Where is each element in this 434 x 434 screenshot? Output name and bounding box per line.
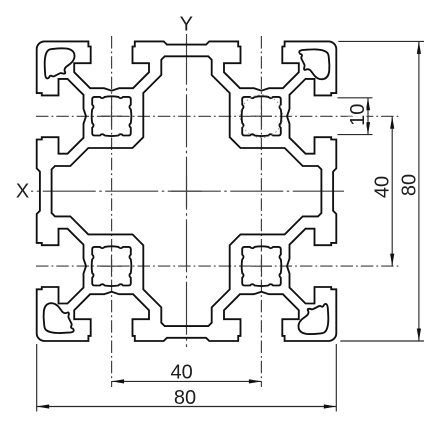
svg-text:X: X: [16, 181, 29, 203]
svg-text:40: 40: [372, 176, 394, 198]
svg-text:80: 80: [174, 387, 196, 409]
svg-text:Y: Y: [180, 13, 193, 35]
svg-text:80: 80: [398, 174, 420, 196]
svg-text:40: 40: [170, 362, 192, 384]
svg-text:10: 10: [347, 104, 369, 126]
